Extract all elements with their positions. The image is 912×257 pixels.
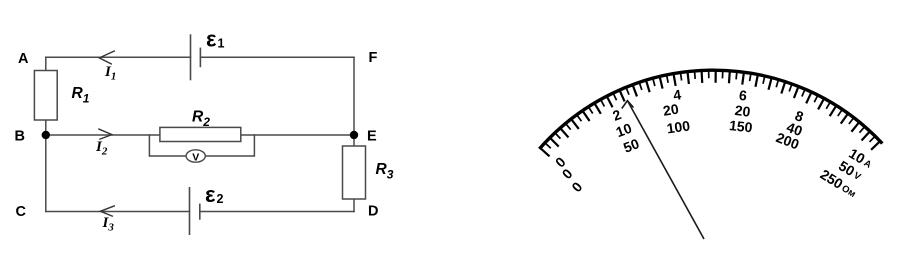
wire battery E2 left plate to C corner (bottom-left horizontal) — [46, 211, 190, 213]
svg-text:20: 20 — [662, 101, 680, 119]
svg-text:B: B — [15, 129, 25, 145]
current arrow I3 (pointing left on bottom wire) — [100, 206, 115, 217]
meter tick marks (51 ticks, alternating long/short) — [539, 69, 881, 156]
battery E1 (EMF source on top branch: long plate left, short plate right) — [191, 34, 201, 80]
wire resistor R3 bottom to D corner — [353, 199, 355, 212]
svg-text:F: F — [369, 50, 378, 66]
wire voltmeter branch left (tee down from middle wire) — [149, 135, 186, 156]
scale labels 0 0 0 (left end zeros of A/V/Ohm rows) — [552, 153, 586, 195]
node B (junction dot) — [42, 131, 50, 139]
scale labels 4 / 20 / 100 — [662, 86, 691, 136]
wire voltmeter branch right (tee up to middle wire) — [205, 135, 254, 156]
wire battery E1 right plate to F corner (top-right horizontal) — [200, 56, 354, 58]
svg-text:A: A — [18, 51, 29, 67]
current arrow I2 (pointing right on middle wire) — [98, 129, 112, 140]
voltmeter V (ellipse connected across R2) — [186, 150, 205, 162]
wire E to resistor R3 top — [353, 135, 355, 146]
resistor R1 (left branch, between A and B) — [34, 71, 57, 121]
svg-text:150: 150 — [728, 117, 753, 135]
wire D to battery E2 right plate (bottom-right horizontal) — [200, 211, 354, 213]
wire B to E (middle horizontal through R2) — [46, 134, 354, 136]
svg-text:D: D — [368, 204, 378, 220]
resistor R2 (middle branch, between B and E) — [160, 127, 241, 141]
scale labels 6 / 20 / 150 — [728, 87, 753, 136]
svg-text:V: V — [192, 151, 199, 163]
scale labels 2 / 10 / 50 — [610, 106, 641, 156]
wire C to B (left vertical lower) — [45, 135, 47, 212]
current arrow I1 (pointing left on top wire) — [99, 51, 115, 65]
meter scale arc band — [539, 70, 882, 149]
meter needle (pointer arrow indicating ~2.5 on the scale) — [622, 101, 704, 239]
wire resistor R1 top to A corner — [45, 57, 47, 70]
svg-text:100: 100 — [666, 117, 692, 136]
scale labels 10 A / 50 V / 250 Om (right end, full-scale values with units) — [818, 145, 876, 201]
resistor R3 (right branch, between E and D) — [343, 146, 366, 199]
battery E2 (EMF source on bottom branch: long plate left, short plate right) — [190, 187, 200, 235]
wire F to E (right vertical upper) — [353, 57, 355, 135]
node E (junction dot) — [350, 131, 358, 139]
wire B to resistor R1 bottom — [45, 120, 47, 135]
scale labels 8 / 40 / 200 — [774, 107, 806, 152]
svg-text:E: E — [367, 129, 377, 145]
svg-text:C: C — [16, 204, 27, 220]
wire A corner to battery E1 left plate (top-left horizontal) — [46, 56, 191, 58]
